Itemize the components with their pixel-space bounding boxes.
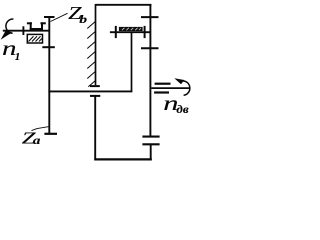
motor worm top bar (155, 83, 171, 85)
worm (hatched box below shaft) (27, 34, 42, 43)
svg-text:1: 1 (15, 51, 21, 63)
rotation arrow n_dv arc (174, 78, 190, 95)
label Zb (68, 3, 87, 27)
leader line Zb (51, 13, 68, 21)
planet gear shaft S2 (110, 31, 150, 33)
rotation arrow n1 arc (1, 19, 14, 40)
carrier stem (vertical from planet shaft) (131, 32, 133, 92)
right gear column (upper segment) (149, 4, 151, 138)
top tick of gear Zb (44, 16, 55, 18)
housing wall bottom tick (90, 85, 100, 87)
label n_dv (163, 92, 189, 116)
gear line Zb/Za (left vertical) (48, 17, 50, 134)
bearing tick on shaft S1 (22, 26, 24, 35)
right column lower segment top tick (142, 143, 159, 145)
frame bottom line (94, 158, 152, 160)
motor shaft (151, 87, 190, 89)
right column tick 2 (141, 47, 159, 49)
right column bottom tick (142, 136, 159, 138)
input shaft S1 (3, 30, 50, 32)
svg-text:дв: дв (176, 102, 189, 115)
bottom tick of gear Za (44, 133, 57, 135)
svg-text:a: a (33, 133, 41, 146)
planet gear right tick (144, 26, 146, 38)
worm wheel bracket (channel above shaft) (27, 22, 46, 29)
label n1 (2, 38, 20, 63)
fixed housing wall (95, 4, 97, 85)
leader line Za (32, 127, 50, 131)
planet gear left tick (115, 26, 117, 38)
output wheel left top tick (90, 95, 100, 97)
carrier arm (horizontal) (48, 90, 132, 92)
housing hatching (87, 21, 95, 87)
right column lower segment (150, 144, 152, 160)
svg-text:b: b (79, 13, 87, 26)
planet gear hatched bar (119, 27, 142, 30)
label Za (22, 128, 41, 147)
frame top line (95, 4, 151, 6)
output wheel left line (94, 96, 96, 160)
mid tick of gear Zb (42, 46, 55, 48)
right column tick 1 (141, 16, 159, 18)
motor worm bottom bar (154, 91, 169, 93)
